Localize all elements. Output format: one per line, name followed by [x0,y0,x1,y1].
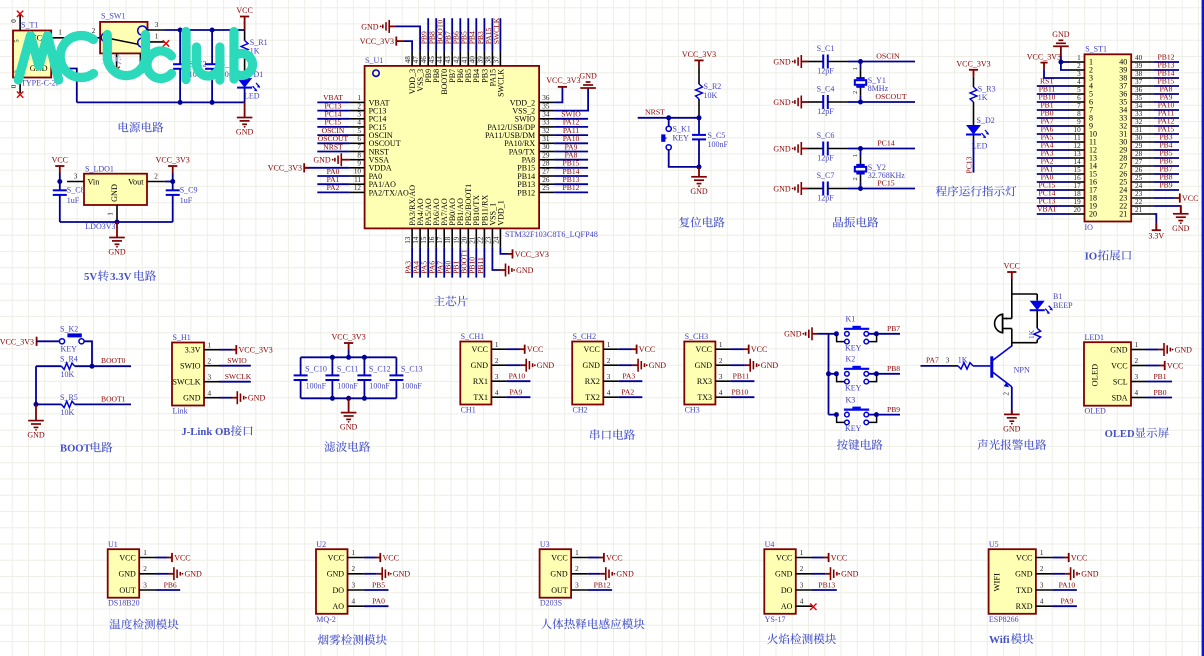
svg-text:1: 1 [1077,54,1081,62]
svg-text:24: 24 [1135,182,1143,190]
pin U1.44 BOOT0 [443,51,445,66]
svg-text:12: 12 [354,184,362,192]
svg-text:20: 20 [1074,206,1082,214]
wire net PC15 [848,188,915,190]
svg-text:38: 38 [1135,70,1143,78]
svg-text:27: 27 [1135,158,1143,166]
pin CH2.4 TX2 [603,396,618,398]
title [767,633,836,644]
svg-text:33: 33 [542,119,550,127]
svg-text:U3: U3 [540,540,550,549]
wire net PA10 [1153,109,1179,111]
wire net PB15 [554,167,588,169]
svg-text:CH2: CH2 [573,405,588,414]
svg-text:VCC: VCC [606,553,622,562]
svg-text:2: 2 [719,357,723,365]
junction [210,100,215,105]
wire net PA9 [554,151,588,153]
module U3 D203S [540,549,572,598]
svg-text:VCC: VCC [751,345,767,354]
title 晶振电路 [833,217,878,228]
svg-text:PA3: PA3 [622,372,635,381]
svg-text:19: 19 [1074,198,1082,206]
svg-text:2: 2 [154,172,158,180]
svg-text:S_T1: S_T1 [21,21,38,30]
svg-text:NPN: NPN [1014,366,1030,375]
junction [90,364,95,369]
svg-text:GND: GND [579,72,597,81]
svg-text:S_C13: S_C13 [401,365,423,374]
svg-text:VCC_3V3: VCC_3V3 [682,50,716,59]
svg-text:0: 0 [10,19,18,23]
pin LDO1.1 GND [116,205,118,222]
svg-text:VCC_3V3: VCC_3V3 [0,338,34,347]
resistor S_R1 1K [244,30,246,41]
pin U1.47 VSS_3 [419,51,421,66]
svg-text:8: 8 [357,151,361,159]
svg-text:32: 32 [1135,118,1143,126]
wire net PB14 [554,175,588,177]
svg-text:AO: AO [781,602,793,611]
wire net PC13 [317,110,349,112]
pin U1.31 PA10/RX [539,142,554,144]
ground GND at U1 VSS_1 pin 23 [492,247,500,270]
ground GND jlink [219,397,232,399]
resistor S_R3 1K [973,77,975,87]
svg-text:6: 6 [357,135,361,143]
pin SW1 bottom stubs no-connect [116,53,118,68]
svg-text:PB12: PB12 [517,188,535,197]
svg-text:1K: 1K [978,93,988,102]
svg-text:3: 3 [1135,373,1139,381]
wire net PB5 [1153,157,1179,159]
svg-text:37: 37 [1135,78,1143,86]
pin ST1.29 [1131,149,1153,151]
svg-text:1: 1 [143,549,147,557]
wire net PA8 [554,159,588,161]
svg-text:26: 26 [542,176,550,184]
svg-text:VCC: VCC [551,553,567,562]
label 开关 [101,55,121,65]
svg-text:37: 37 [492,56,500,64]
svg-text:VDD_1: VDD_1 [496,200,505,225]
svg-text:GND: GND [327,570,345,579]
svg-text:28: 28 [542,160,550,168]
svg-text:PA9: PA9 [509,388,522,397]
pin U1.18 PB0/AO [451,228,453,247]
wire net PA7 [1037,125,1069,127]
wire net PA3 [618,380,642,382]
svg-text:GND: GND [773,144,791,153]
junction [330,396,335,401]
pin U2.4 AO [348,605,364,607]
pin U1.36 VDD_2 [539,101,554,103]
ground GND S_C4 row [792,96,802,109]
svg-text:VCC: VCC [1111,361,1127,370]
svg-text:OSCIN: OSCIN [876,51,900,60]
regulator S_LDO1 LDO3V3 [84,174,147,205]
power port 3.3V at ST1 pin 21 [1153,214,1156,223]
ground GND U4 [812,573,825,575]
svg-text:PB11: PB11 [476,257,485,274]
wire net OSCIN [317,134,349,136]
svg-text:VCC_3V3: VCC_3V3 [268,164,302,173]
svg-text:Link: Link [173,406,188,415]
svg-text:S_C5: S_C5 [708,131,726,140]
wire net PB0 [1146,397,1172,399]
power port VCC_3V3 filter [344,343,353,350]
power port VCC top [244,22,246,30]
pin U1.40 PB4 [475,51,477,66]
svg-text:PB6: PB6 [164,580,177,589]
svg-text:1K: 1K [958,355,968,364]
ground GND filter [341,413,357,423]
pin ST1.3 [1069,77,1085,79]
pin SW1.1 no-connect [148,41,165,43]
svg-text:27: 27 [542,168,550,176]
pin U1.33 PA12/USB/DP [539,126,554,128]
module U5 ESP8266 [989,549,1036,614]
wire emitter to gnd [1011,387,1013,414]
capacitor S_C8 1uF [59,182,61,191]
connector S_CH1 [460,342,491,405]
svg-text:0: 0 [10,84,18,88]
svg-text:1uF: 1uF [180,196,193,205]
pin ST1.9 [1069,125,1085,127]
svg-text:VCC: VCC [639,345,655,354]
pin H1.3 SWCLK [204,381,219,383]
svg-text:12pF: 12pF [817,194,834,203]
svg-text:IO: IO [1085,223,1094,232]
svg-text:14: 14 [412,236,420,244]
svg-text:U4: U4 [765,540,775,549]
wire net PB7 [829,333,837,335]
svg-text:SDA: SDA [1112,393,1128,402]
svg-text:MQ-2: MQ-2 [316,615,336,624]
pin U1.22 PB11/RX [483,228,485,247]
svg-text:3: 3 [1077,70,1081,78]
svg-text:46: 46 [420,56,428,64]
junction [874,412,879,417]
ground GND S_C1 row [792,55,802,68]
svg-text:100nF: 100nF [337,382,358,391]
svg-text:RXD: RXD [1016,602,1033,611]
svg-text:13: 13 [404,236,412,244]
power port VCC_3V3 at U1 VDDA pin 9 [304,167,349,169]
pin ST1.4 [1069,85,1085,87]
svg-text:VCC: VCC [328,553,344,562]
svg-text:3: 3 [946,357,950,365]
svg-text:25: 25 [1135,174,1143,182]
svg-text:100nF: 100nF [401,382,422,391]
wire net RST [1037,85,1069,87]
wire net PB6 [459,18,461,51]
wire net PB10 [730,396,754,398]
pin ST1.33 [1131,117,1153,119]
wire net PA9 [1052,605,1077,607]
watermark MCUclub [18,32,252,81]
wire net PA1 [1037,173,1069,175]
svg-text:VBAT: VBAT [1037,205,1057,214]
pin CH3.4 TX3 [715,396,730,398]
no-connect U4 pin 4 [810,604,816,611]
power port VCC_3V3 at U1 VDD_3 pin 48 [395,37,397,46]
power port VCC_3V3 ldo output [168,166,177,173]
svg-text:GND: GND [1003,424,1021,433]
wire net PB9 [427,18,429,51]
svg-text:4: 4 [800,598,804,606]
wire key to gnd rail [669,150,699,167]
svg-text:VCC: VCC [1016,553,1032,562]
svg-text:LED1: LED1 [1085,333,1105,342]
pin cap S_C1 right lead [828,61,848,63]
svg-text:2: 2 [1002,392,1010,396]
junction [34,402,39,407]
pin ST1.36 [1131,93,1153,95]
wire net OSCIN [848,61,915,63]
pushbutton S_K2 KEY [59,339,84,344]
svg-text:29: 29 [542,151,550,159]
resistor 1K base [952,365,958,367]
svg-text:BOOT: BOOT [60,444,91,455]
svg-text:10K: 10K [704,91,718,100]
svg-text:4: 4 [208,389,212,397]
pin T1 bottom no-connect stub [19,78,21,94]
svg-text:GND: GND [471,361,489,370]
pin U5.3 TXD [1036,589,1052,591]
wire T1.1 to SW1.2 [68,37,94,39]
wire net PB13 [1153,69,1179,71]
wire net PA10 [506,380,530,382]
power port VCC alarm [1007,272,1016,279]
power port VCC serial CH3 [730,348,744,350]
ground GND at ST1 pin 22 [1153,206,1181,214]
pin U1.14 PA4/AO [419,228,421,247]
pin U1.3 OUT [139,589,155,591]
svg-text:GND: GND [1081,570,1099,579]
svg-text:2: 2 [143,565,147,573]
svg-text:1: 1 [575,549,579,557]
svg-text:U5: U5 [989,540,999,549]
svg-text:4: 4 [1135,389,1139,397]
svg-text:S_CH3: S_CH3 [685,332,709,341]
pin cap S_C4 right lead [828,101,848,103]
pin CH1.2 GND [491,364,506,366]
svg-text:PB1: PB1 [1153,372,1166,381]
svg-text:VCC_3V3: VCC_3V3 [546,76,580,85]
svg-text:PB10: PB10 [731,388,748,397]
wire net PA4 [419,247,421,277]
pin U1.43 PB7 [451,51,453,66]
resistor S_R5 10K [36,403,61,405]
pin U1.15 PA5/AO [427,228,429,247]
wire net PA5 [427,247,429,277]
svg-text:VCC: VCC [1004,262,1020,271]
pin U1.1 VBAT [350,101,365,103]
wire net PB3 [1153,141,1179,143]
pin cap S_C7 left lead [808,188,823,190]
svg-text:1: 1 [352,549,356,557]
pin U1.26 PB13 [539,183,554,185]
wire net PB7 [451,18,453,51]
svg-text:VCC: VCC [831,553,847,562]
title [541,618,645,629]
pin U4.3 DO [796,589,812,591]
wire net PC15 [317,126,349,128]
junction [834,412,839,417]
resistor 1K below led [1036,310,1038,328]
svg-text:GND: GND [773,57,791,66]
junction [178,28,183,33]
svg-text:VCC: VCC [383,553,399,562]
pushbutton S_K1 KEY [668,118,670,126]
svg-text:15: 15 [1074,166,1082,174]
svg-text:K2: K2 [846,355,856,364]
svg-text:VCC_3V3: VCC_3V3 [239,346,273,355]
wire net SWCLK [499,18,501,51]
svg-text:S_C8: S_C8 [67,186,85,195]
svg-text:1: 1 [607,341,611,349]
svg-text:3: 3 [208,373,212,381]
capacitor S_C13 100nF [395,357,397,375]
pin U3.2 GND [571,573,587,575]
wire NRST net [638,117,699,119]
junction [858,186,863,191]
pin U5.4 RXD [1036,605,1052,607]
ground GND power circuit [237,118,253,128]
svg-text:D203S: D203S [540,599,562,608]
svg-text:Vin: Vin [88,177,100,186]
svg-text:28: 28 [1135,150,1143,158]
svg-text:VCC_3V3: VCC_3V3 [156,156,190,165]
svg-text:VCC: VCC [236,6,252,15]
connector S_CH2 [572,342,603,405]
svg-text:OLED: OLED [1090,364,1100,387]
wire net PA0 [364,605,389,607]
power port VCC U5 [1052,557,1064,559]
svg-text:KEY: KEY [845,383,862,392]
pin U4.1 VCC [796,557,812,559]
wire VCC rail top [165,29,245,31]
pin ST1.39 [1131,69,1153,71]
capacitor S_C9 1uF [172,182,174,191]
svg-text:17: 17 [436,236,444,244]
svg-text:1: 1 [155,33,159,41]
svg-text:100nF: 100nF [369,382,390,391]
wire ldo bottom rail [60,221,173,223]
wire net PA9 [506,396,530,398]
buzzer B1 top lead [1011,294,1013,319]
svg-text:GND: GND [1172,224,1190,233]
pin LED1.4 SDA [1131,397,1146,399]
svg-text:39: 39 [476,56,484,64]
pin LDO1.3 Vin [67,181,84,183]
pin T1.2 GND [51,68,68,70]
wire net PA0 [1037,181,1069,183]
svg-text:KEY: KEY [673,134,690,143]
wire net SWIO [219,365,251,367]
svg-text:4: 4 [1040,598,1044,606]
svg-text:12pF: 12pF [817,67,834,76]
svg-text:3: 3 [352,581,356,589]
ground GND U2 [364,573,377,575]
svg-text:S_R5: S_R5 [60,393,78,402]
svg-text:48: 48 [404,56,412,64]
svg-text:GND: GND [313,156,331,165]
svg-text:6: 6 [1077,94,1081,102]
switch S_SW1 [100,22,147,54]
pin ST1.40 [1131,61,1153,63]
svg-text:35: 35 [1135,94,1143,102]
svg-text:PA2: PA2 [621,388,634,397]
pin H1.1 3.3V [204,349,219,351]
wire net PB15 [1153,85,1179,87]
svg-text:RX1: RX1 [473,377,488,386]
power port VCC U3 [587,557,599,559]
pin U1.9 VDDA [350,167,365,169]
ground GND io header top [1053,40,1069,46]
svg-text:13: 13 [1074,150,1082,158]
svg-text:16: 16 [428,236,436,244]
pin H1.2 SWIO [204,365,219,367]
svg-text:18: 18 [1074,190,1082,198]
svg-text:40: 40 [1135,54,1143,62]
pin U2.1 VCC [348,557,364,559]
title 电源电路 [119,122,164,133]
wire net VBAT [1037,213,1069,215]
pin U1.5 OSCIN [350,134,365,136]
svg-text:IO: IO [1085,251,1098,263]
svg-text:S_R4: S_R4 [60,355,78,364]
svg-text:22: 22 [476,236,484,244]
ground GND reset [691,177,707,187]
svg-text:2: 2 [1135,357,1139,365]
pin U3.3 OUT [571,589,587,591]
wire net PB10 [475,247,477,277]
wire net PB12 [554,191,588,193]
pin U1.17 PA7/AO [443,228,445,247]
svg-text:20: 20 [460,236,468,244]
power port VCC serial CH2 [618,348,632,350]
svg-text:S_U1: S_U1 [365,56,383,65]
wire net PB4 [475,18,477,51]
svg-text:VCC: VCC [527,345,543,354]
pin ST1.19 [1069,205,1085,207]
svg-text:S_H1: S_H1 [173,333,191,342]
svg-text:36: 36 [542,94,550,102]
pin U1.11 PA1/AO [350,183,365,185]
svg-text:5: 5 [1077,86,1081,94]
svg-text:1: 1 [106,212,114,216]
svg-text:VCC_3V3: VCC_3V3 [360,37,394,46]
junction [834,331,839,336]
svg-text:Vout: Vout [128,177,144,186]
pin U1.39 PB3 [483,51,485,66]
capacitor S_C1 12pF [823,55,828,69]
svg-text:S_LDO1: S_LDO1 [85,165,114,174]
svg-text:11: 11 [1074,134,1081,142]
svg-text:1: 1 [495,341,499,349]
svg-text:LDO3V3: LDO3V3 [85,222,115,231]
svg-text:KEY: KEY [845,424,862,433]
wire net PC14 [1037,197,1069,199]
svg-text:1: 1 [719,341,723,349]
svg-text:23: 23 [1135,190,1143,198]
pin U1.42 PB6 [459,51,461,66]
buzzer speaker symbol [995,314,1003,333]
ground GND alarm [1004,414,1020,424]
wire net PB12 [587,589,612,591]
